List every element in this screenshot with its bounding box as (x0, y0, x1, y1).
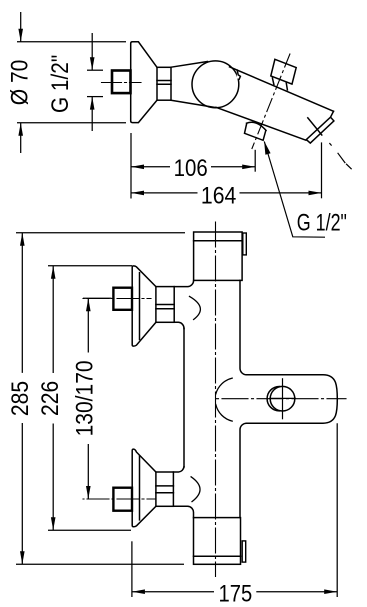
spout axis tick (308, 118, 322, 135)
upper wall nut (113, 288, 132, 310)
285 bottom extension line (16, 563, 184, 565)
lower connection centerline (83, 498, 155, 500)
upper arm top edge + fillet to cap (174, 281, 193, 287)
upper arm junction arc (190, 296, 201, 319)
226 bottom extension line (48, 529, 131, 531)
lower connection ring (156, 472, 174, 506)
body bottom edge (spout) (216, 107, 306, 140)
top outlet fitting (square) (271, 59, 296, 84)
right arm junction arc (upper) (216, 378, 232, 394)
G12 bottom tick (87, 96, 103, 98)
svg-text:130/170: 130/170 (72, 360, 99, 436)
bottom outlet fitting (247, 122, 267, 130)
top fitting neck (272, 78, 287, 90)
226 arrow top (51, 266, 56, 279)
bottom cap (194, 518, 241, 565)
spout tip / aerator (306, 111, 334, 143)
nut centerline (102, 82, 142, 84)
right arm junction arc (lower) (216, 405, 232, 422)
top cap rim line (194, 240, 243, 242)
notch cover (237, 71, 243, 79)
svg-text:G 1/2": G 1/2" (297, 210, 347, 237)
G12 arrow bottom (90, 97, 95, 110)
diverter knob circle (270, 386, 295, 411)
106 dimension line (131, 166, 255, 168)
dia70 top extension line (17, 41, 126, 43)
lower bell inner rim (139, 456, 141, 520)
dia70 dimension line top segment (20, 12, 22, 42)
226 top extension line (48, 265, 132, 267)
upper escutcheon bell (132, 266, 156, 346)
285 top extension line (16, 232, 185, 234)
body top edge (spout) (230, 67, 334, 112)
130-170 arrow bottom (86, 486, 91, 499)
upper connection ring (156, 287, 174, 323)
fillet right arm to column right edge (240, 423, 247, 517)
106 right extension line (254, 150, 256, 172)
connection ring (157, 67, 171, 100)
column centerline (215, 222, 217, 577)
right arm outline with rounded end (247, 375, 338, 423)
G12 arrow top (90, 57, 95, 70)
dia70 dimension line bottom segment (20, 123, 22, 153)
175 arrow left (132, 589, 145, 594)
upper bell inner rim (139, 273, 141, 340)
175 left extension line (131, 541, 133, 597)
175 dimension line (132, 591, 337, 593)
top cap of body column (194, 232, 243, 280)
top mounting tab (243, 233, 247, 255)
285 arrow top (20, 233, 25, 246)
svg-text:285: 285 (7, 381, 34, 416)
106/164 left extension line (130, 133, 132, 199)
outlets centerline (252, 54, 290, 149)
285 dimension line (21, 233, 23, 565)
164 right extension line (321, 142, 323, 198)
dia70 bottom extension line (17, 122, 126, 124)
G12 leader line with underline (264, 142, 325, 238)
G12 leader arrowhead (264, 141, 271, 155)
thermostat knob (circle) (192, 61, 239, 108)
svg-text:164: 164 (201, 183, 236, 210)
164 dimension line (131, 192, 322, 194)
bottom mounting tab (242, 541, 246, 562)
130-170 dimension line (87, 298, 89, 499)
bottom cap rim line (194, 555, 241, 557)
svg-text:106: 106 (174, 155, 208, 182)
column right edge (cap to right arm) (240, 280, 247, 374)
body top edge (left of knob) (171, 62, 208, 68)
226 dimension line (52, 266, 54, 531)
285 arrow bottom (20, 551, 25, 564)
lower arm bottom edge + fillet to bottom cap (173, 506, 193, 517)
knob side crescent arc (267, 387, 279, 411)
mid column left edge (183, 329, 185, 467)
G12 top tick (87, 69, 103, 71)
lower arm junction arc (191, 477, 200, 502)
upper connection centerline (83, 298, 151, 300)
water stream dashes (330, 144, 351, 169)
knob cross horizontal (270, 397, 296, 399)
svg-text:Ø 70: Ø 70 (6, 60, 33, 106)
lower wall nut (113, 488, 132, 511)
wall nut (hex nut, side view) (112, 71, 131, 94)
svg-text:175: 175 (219, 581, 253, 607)
knob cross vertical (282, 379, 284, 419)
right arm centerline (216, 398, 346, 400)
body bottom edge (left of knob) (171, 100, 216, 107)
dia70 arrow top (18, 29, 23, 42)
106 arrow right (242, 165, 255, 170)
175 arrow right (324, 589, 337, 594)
175 right extension line (336, 423, 338, 597)
svg-text:226: 226 (37, 381, 64, 416)
130-170 arrow top (86, 298, 91, 311)
226 arrow bottom (51, 517, 56, 530)
upper arm bottom edge + fillet to mid column (174, 322, 184, 328)
lower escutcheon bell (132, 449, 156, 527)
svg-text:G 1/2": G 1/2" (47, 55, 74, 113)
wall escutcheon (bell), side view (131, 42, 157, 123)
164 arrow right (309, 191, 322, 196)
G12 dimension line top segment (91, 33, 93, 70)
dia70 arrow bottom (18, 123, 23, 136)
106 arrow left (131, 165, 144, 170)
164 arrow left (131, 191, 144, 196)
G12 dimension line bottom segment (91, 97, 93, 131)
fillet to lower arm top edge (173, 467, 184, 472)
notch step (237, 70, 240, 79)
130-170 top extension line (83, 297, 112, 299)
